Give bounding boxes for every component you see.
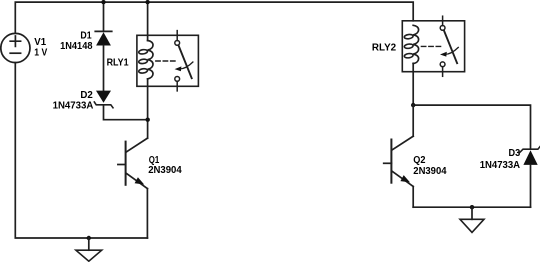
relay RLY1 switch blade	[179, 46, 192, 79]
relay RLY1 box	[137, 35, 199, 86]
relay RLY1 coil	[138, 41, 153, 79]
wire node to D3 top	[413, 105, 530, 149]
node junction rail-D1	[101, 0, 105, 4]
relay RLY2 switch pin 1 stub	[442, 16, 444, 25]
zener diode D2 1N4733A	[94, 91, 113, 108]
wire RLY1 coil bottom to Q1 collector	[147, 79, 149, 138]
voltage source V1	[1, 33, 30, 62]
node RLY1/Q1	[146, 118, 150, 122]
relay RLY1 switch top contact	[175, 41, 180, 46]
relay RLY2 dashed link	[421, 45, 442, 47]
svg-text:Q2: Q2	[413, 155, 425, 166]
wire Q2 collector	[412, 105, 414, 136]
wire RLY1 coil top to rail	[147, 2, 149, 40]
svg-text:RLY2: RLY2	[372, 42, 397, 53]
svg-text:1 V: 1 V	[34, 48, 47, 59]
svg-text:D3: D3	[509, 148, 521, 159]
relay RLY1 switch pin 1 stub	[176, 31, 178, 41]
wire D3 bottom to rail	[530, 165, 532, 207]
relay RLY2 actuator arrow	[440, 47, 458, 56]
wire RLY2 coil bottom to node	[412, 63, 414, 105]
svg-text:2N3904: 2N3904	[413, 166, 447, 177]
node RLY2/Q2	[411, 103, 415, 107]
svg-text:1N4148: 1N4148	[60, 41, 93, 52]
svg-text:RLY1: RLY1	[107, 58, 129, 69]
transistor Q1 2N3904	[118, 138, 147, 188]
wire bottom right rail	[413, 206, 530, 208]
node junction rail-RLY1	[145, 0, 149, 4]
svg-text:2N3904: 2N3904	[148, 165, 182, 176]
node ground rail	[87, 236, 91, 240]
wire Q2 emitter to ground rail	[412, 187, 414, 208]
svg-text:1N4733A: 1N4733A	[53, 101, 94, 112]
wire D1 to D2	[103, 46, 105, 91]
transistor Q2 2N3904	[384, 136, 414, 186]
relay RLY2 switch blade	[444, 31, 457, 64]
relay RLY2 switch bottom contact	[440, 62, 445, 67]
wire top rail	[15, 2, 413, 33]
node ground rail right	[470, 205, 474, 209]
svg-text:1N4733A: 1N4733A	[480, 160, 521, 171]
relay RLY2 switch top contact	[440, 26, 445, 31]
wire Q1 emitter to ground rail	[146, 189, 148, 238]
wire D2 to node	[104, 105, 148, 120]
relay RLY2 coil	[404, 25, 419, 63]
svg-text:V1: V1	[34, 37, 46, 48]
relay RLY1 switch bottom contact	[175, 77, 180, 82]
relay RLY1 actuator arrow	[175, 62, 193, 71]
relay RLY2 switch pin 2 stub	[442, 67, 444, 77]
relay RLY1 switch pin 2 stub	[176, 81, 178, 91]
ground symbol left	[76, 238, 102, 261]
relay RLY2 box	[402, 21, 464, 72]
wire V1 bottom to ground rail	[15, 63, 147, 238]
ground symbol right	[460, 207, 484, 232]
diode D1 1N4148	[95, 31, 111, 45]
zener diode D3 1N4733A	[520, 146, 540, 165]
wire D1 anode to top rail	[103, 2, 105, 31]
relay RLY1 dashed link	[156, 60, 177, 62]
svg-text:D2: D2	[80, 90, 93, 101]
